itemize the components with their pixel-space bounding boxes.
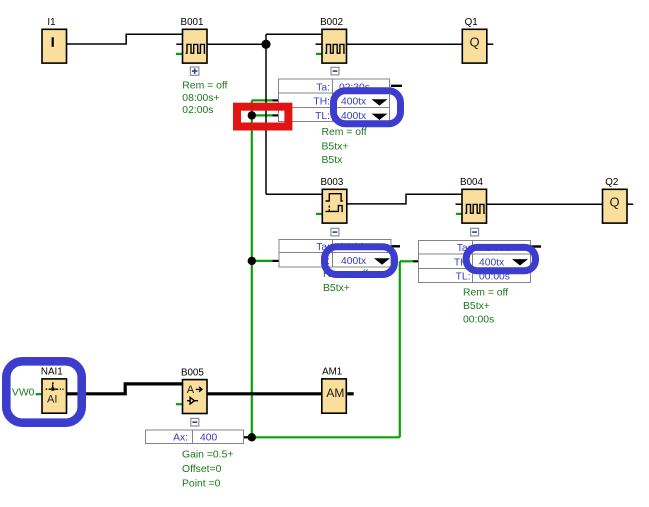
expand icon minus of B002 — [331, 67, 339, 75]
wire Q1 output stub — [487, 43, 494, 45]
parameter table of B003 — [279, 240, 391, 267]
svg-text:Gain =0.5+: Gain =0.5+ — [182, 450, 233, 461]
wire B003 enable green stub — [316, 213, 322, 215]
junction dot green TL branch — [248, 111, 256, 119]
block B004 asynchronous pulse generator — [460, 177, 486, 223]
annotation blue rounded rectangle around NAI1 — [6, 361, 81, 422]
wire black dash right of B004 Ta row — [531, 245, 541, 247]
wire NAI1 output to B005 bold — [67, 384, 183, 394]
wire green bottom run from Ax junction — [252, 436, 400, 438]
green parameter text under B002 — [322, 127, 367, 166]
parameter table of B004 — [419, 240, 531, 282]
expand icon minus of B005 — [191, 418, 199, 426]
wire AM1 output stub bold — [347, 392, 354, 395]
block B005 analog amplifier — [181, 367, 207, 413]
svg-text:400tx: 400tx — [341, 256, 367, 267]
svg-text:Rem = off: Rem = off — [182, 81, 227, 92]
block B002 asynchronous pulse generator — [320, 17, 346, 63]
svg-text:B5tx+: B5tx+ — [322, 141, 349, 152]
svg-text:02:00s: 02:00s — [182, 105, 213, 116]
svg-text:NAI1: NAI1 — [41, 366, 63, 377]
wire junction vertical to B003 row — [265, 34, 267, 194]
svg-text:B5tx: B5tx — [322, 155, 344, 166]
junction dot green B003 T branch — [248, 257, 256, 265]
expand icon minus of B004 — [471, 228, 479, 236]
annotation red rectangle highlight — [237, 107, 288, 127]
annotation blue rounded rectangle around B002 TH TL — [334, 91, 401, 124]
wire green branch to B002 TH — [252, 99, 273, 101]
expand icon minus of B003 — [331, 228, 339, 236]
wire green vertical up to B003/B004 params — [399, 261, 401, 437]
svg-text:Offset=0: Offset=0 — [182, 464, 222, 475]
net reference green vertical from B002 params to Ax — [251, 100, 253, 437]
wire B002 output to Q1 — [347, 43, 463, 45]
svg-text:B001: B001 — [181, 17, 204, 28]
wire B002 enable green stub — [316, 53, 322, 55]
wire black stub into B002 TL row — [273, 114, 279, 116]
parameter table of B002 — [279, 79, 390, 122]
svg-text:Q: Q — [469, 35, 479, 50]
wire black dash right of B003 Ta row — [391, 245, 400, 247]
wire black stub into B002 TH row — [273, 99, 279, 101]
block B001 asynchronous pulse generator — [181, 17, 207, 63]
wire B005 enable green stub — [176, 403, 183, 405]
wire black dash right of B002 Ta row — [391, 85, 402, 87]
wire B002 input stub — [316, 43, 323, 45]
svg-text:400: 400 — [200, 433, 217, 444]
svg-text:AI: AI — [47, 394, 57, 406]
svg-text:AM: AM — [326, 386, 344, 400]
analog flag block AM1 — [322, 366, 347, 413]
svg-text:TL:: TL: — [315, 111, 330, 122]
wire black stub from Ax box to junction — [244, 436, 249, 438]
svg-text:B5tx+: B5tx+ — [323, 283, 350, 294]
svg-text:B005: B005 — [181, 367, 204, 378]
svg-text:Ta:: Ta: — [316, 83, 330, 94]
parameter box Ax of B005 — [145, 430, 243, 444]
svg-text:VW0: VW0 — [12, 388, 35, 399]
svg-text:400tx: 400tx — [479, 257, 505, 268]
wire B004 output to Q2 — [487, 203, 603, 205]
junction dot green Ax branch — [248, 433, 256, 441]
svg-text:08:00s+: 08:00s+ — [182, 93, 219, 104]
output block Q1 — [462, 17, 487, 63]
expand icon plus of B001 — [190, 67, 199, 75]
svg-text:Q1: Q1 — [465, 17, 478, 28]
svg-text:I1: I1 — [47, 17, 55, 28]
wire black stub into B003 T row — [273, 260, 279, 262]
wire B003 output to B004 — [347, 194, 462, 204]
svg-text:B003: B003 — [320, 177, 343, 188]
input block I1 — [42, 17, 67, 63]
wire junction to B003 top input — [266, 193, 322, 195]
green parameter text under B004 — [463, 287, 508, 325]
wire green branch to B004 TH — [400, 260, 414, 262]
svg-text:AM1: AM1 — [322, 366, 342, 377]
svg-text:TL:: TL: — [456, 271, 471, 282]
block B003 edge triggered interval relay — [320, 177, 346, 223]
wire B001 input stub — [176, 43, 182, 45]
green parameter text under B005 — [182, 450, 233, 490]
svg-text:Ax:: Ax: — [173, 433, 188, 444]
wire B001 output to junction — [207, 43, 266, 45]
network analog input block NAI1 — [41, 366, 67, 413]
svg-text:Rem = off: Rem = off — [322, 127, 367, 138]
wire NAI1 VW0 green stub — [36, 393, 42, 395]
svg-text:Q: Q — [610, 195, 620, 210]
svg-text:Point =0: Point =0 — [182, 479, 221, 490]
output block Q2 — [603, 177, 628, 223]
wire B004 input stub — [456, 203, 463, 205]
svg-text:B002: B002 — [320, 17, 343, 28]
svg-text:00:00s: 00:00s — [463, 315, 494, 326]
green parameter text under B001 — [182, 81, 227, 117]
wire green branch to B003 T — [252, 260, 273, 262]
annotation blue rounded rectangle around B004 TH — [466, 247, 535, 270]
junction dot B001 output — [261, 40, 270, 49]
wire I1 to B001 — [67, 34, 183, 44]
svg-text:Q2: Q2 — [605, 177, 618, 188]
svg-text:A: A — [187, 384, 195, 396]
wire B001 enable input green stub — [176, 53, 183, 55]
svg-text:B004: B004 — [460, 177, 483, 188]
wire junction to B002 top input — [266, 33, 322, 35]
svg-text:400tx: 400tx — [341, 97, 367, 108]
wire black stub into B004 TH row — [413, 260, 418, 262]
wire green branch to B002 TL — [252, 114, 273, 116]
annotation blue rounded rectangle around B003 T — [325, 247, 395, 275]
svg-text:B5tx+: B5tx+ — [463, 301, 490, 312]
wire B004 enable green stub — [456, 213, 462, 215]
svg-text:TH:: TH: — [313, 97, 330, 108]
green parameter text under B003 — [323, 269, 368, 294]
wire B005 output to AM1 bold — [207, 392, 322, 395]
svg-text:Rem = off: Rem = off — [463, 287, 508, 298]
wire Q2 output stub — [627, 203, 634, 205]
